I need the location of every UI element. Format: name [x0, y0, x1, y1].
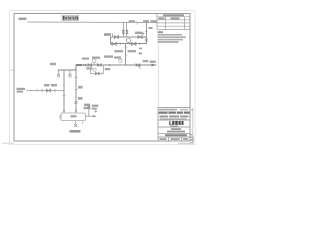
valve top of vent pipe: [87, 105, 90, 107]
vertical fold line right: [157, 44, 159, 108]
label right of vent valve row2: [92, 108, 97, 110]
valve on main line right (bowtie) V3: [136, 64, 140, 67]
flange tick upper manifold right: [143, 36, 145, 38]
label above main line big right: [104, 55, 113, 57]
instrument circle on bypass: [93, 68, 96, 71]
pipe: left feed line: [27, 90, 65, 92]
stamp logo: [62, 15, 79, 20]
sheet number marks in right column: [191, 134, 193, 141]
title row centered wide: [167, 131, 185, 133]
control valve actuator circle: [126, 38, 130, 42]
drain stub below vessel: [75, 121, 77, 124]
right edge tab: [192, 137, 194, 143]
label right of vent valve: [92, 105, 99, 107]
tie-in label row2: [17, 91, 24, 93]
pipe: upper manifold header: [110, 36, 147, 38]
valve on upper manifold left (bowtie): [115, 36, 119, 39]
company logo text LAMAR: [169, 121, 183, 125]
flange tick right downcomer upper: [75, 77, 78, 79]
bottom cells text 3: [183, 138, 188, 140]
revision table title text: [163, 14, 184, 16]
inner drawing border: [14, 14, 190, 142]
flange tick on right connector: [145, 30, 148, 32]
pipe: vent header: [28, 21, 158, 24]
vent valve A (bowtie down): [57, 74, 60, 77]
sheet text outside frame right: [191, 109, 194, 111]
right column bottom tick: [190, 141, 193, 143]
plus mark symbol: [94, 110, 97, 113]
vent valve B (bowtie down): [69, 74, 72, 77]
pipe: bypass line below main: [91, 73, 104, 75]
flange tick lower manifold d: [139, 43, 141, 45]
notes line 4: [158, 41, 179, 43]
arrow into vessel left downcomer: [63, 111, 65, 114]
label right of right connector top: [149, 27, 153, 29]
vessel T-1: [61, 113, 86, 121]
notes line 1: [158, 34, 183, 36]
flange tick lower manifold b: [120, 43, 122, 45]
instrument bubble on main line: [92, 59, 96, 63]
label below manifold left: [115, 50, 124, 52]
tick on vent header: [136, 21, 138, 25]
manifold right end connector pipe: [146, 23, 148, 44]
pipe: right downcomer: [75, 65, 77, 113]
label above manifold left: [104, 33, 111, 36]
flange tick left downcomer: [63, 95, 66, 97]
bypass drop right: [103, 65, 105, 74]
revision header cell text 1: [159, 18, 165, 20]
tick on center drop: [125, 46, 128, 48]
label right of bypass: [105, 68, 111, 70]
bottom cells text 1: [160, 138, 167, 140]
feed line flange tick 2: [36, 89, 38, 92]
valve on lower manifold right (bowtie): [132, 42, 137, 45]
pipe: manifold center drop to main line: [125, 44, 127, 65]
feed line label left: [44, 84, 50, 86]
outer sheet border: [10, 11, 196, 145]
vessel left nozzle tick: [59, 115, 61, 119]
heavy pipe segment after corner: [76, 64, 82, 66]
vent stub A below jog: [58, 70, 60, 74]
valve on main line (bowtie) V1: [88, 64, 92, 67]
slope flag from valve: [138, 66, 141, 69]
arrow at drain right: [93, 115, 97, 117]
label near right end of vent header: [143, 20, 149, 22]
title block band 2 text: [160, 115, 189, 117]
cap under vent valve A: [57, 76, 60, 78]
header label right b: [151, 20, 157, 22]
valve on right downcomer: [75, 101, 78, 104]
riser pipe PSV-B to vent header: [126, 22, 128, 37]
bottom cells text 2: [171, 138, 180, 140]
logo sub caption: [170, 126, 178, 127]
control valve stem: [128, 42, 130, 45]
check valve on main line: [109, 64, 112, 66]
notes line 2: [158, 36, 187, 38]
pipe: lower manifold header: [110, 43, 147, 45]
pipe: left downcomer: [63, 70, 65, 113]
title row small centered: [171, 128, 181, 130]
title block stamp text row 1b: [180, 109, 188, 111]
valve on bypass (bowtie): [96, 72, 100, 75]
label right of vessel top 2: [84, 107, 91, 109]
notes title: [158, 31, 164, 33]
vent stub B below jog: [69, 70, 71, 74]
plot stamp text bottom-left: [2, 143, 14, 145]
valve on feed line (bowtie): [47, 89, 51, 92]
drain valve below vessel: [74, 124, 77, 127]
left fold mark: [10, 69, 15, 71]
title block stamp text row 1: [159, 109, 177, 111]
tick below main line: [86, 66, 88, 68]
valve on lower manifold left (bowtie): [112, 42, 117, 45]
notes line 3: [158, 39, 184, 41]
tiny mark near frame left: [17, 88, 26, 90]
label above main line far right: [143, 60, 149, 62]
bypass drop left: [90, 65, 92, 74]
label above main line mid: [114, 56, 121, 58]
revision table: [157, 14, 190, 30]
pipe: corner jog at main line left end: [58, 65, 77, 70]
node label top-left of vent header: [19, 18, 27, 20]
label below manifold right: [128, 50, 137, 52]
vessel tag text: [71, 115, 77, 117]
tick on main line at x140: [139, 64, 141, 66]
label below drain valve: [70, 130, 81, 133]
label on vent header: [129, 20, 136, 22]
riser pipe PSV-A to vent header: [123, 22, 125, 37]
title block dark band text: [159, 112, 190, 114]
relief valve PSV-A body: [122, 30, 124, 32]
instrument stem: [93, 63, 95, 65]
label right of downcomer lower: [78, 97, 83, 100]
label above manifold right: [135, 32, 143, 34]
small instrument circle above main line: [119, 59, 122, 62]
flange tick lower manifold a: [110, 43, 112, 45]
pipe: main process line: [76, 64, 157, 66]
tick on bypass: [101, 72, 103, 74]
valve on upper manifold right (bowtie): [138, 36, 142, 39]
tick below vessel right: [82, 121, 84, 123]
label below main line left: [87, 67, 93, 69]
label left of jog: [50, 63, 56, 65]
label right of vessel top: [84, 104, 90, 106]
feed line end tick: [41, 89, 43, 93]
label above main line big left: [92, 57, 100, 59]
label above arrow: [150, 61, 156, 63]
relief valve PSV-B body: [126, 30, 128, 32]
title block small row text: [160, 118, 187, 119]
valve on main line (bowtie) V2: [98, 64, 102, 67]
right edge column line: [192, 108, 194, 143]
cap under vent valve B: [68, 76, 71, 78]
label above main line near corner: [82, 58, 89, 60]
arrow into vessel right downcomer: [75, 111, 77, 114]
flange tick on manifold left label: [112, 34, 114, 38]
revision header cell text 2: [171, 18, 180, 20]
label right of downcomer upper: [78, 86, 83, 89]
manifold left end connector pipe: [110, 37, 112, 44]
spec break mark 2 below manifold right: [139, 52, 142, 54]
small valve after heavy segment: [84, 64, 87, 66]
arrow head at main line right end: [152, 64, 157, 67]
valve on right connector: [145, 39, 148, 41]
spec break mark below manifold right: [139, 48, 142, 50]
junction mark on center drop: [125, 54, 128, 56]
flange tick right downcomer mid: [75, 89, 78, 91]
arrow mark left of right connector: [142, 32, 145, 35]
plot stamp text bottom-right: [178, 143, 194, 145]
pipe from vessel right end: [86, 115, 94, 117]
flange tick feed line: [54, 89, 56, 92]
flange tick lower manifold c: [129, 43, 131, 45]
drawing title text: [165, 134, 187, 136]
title block frame: [158, 108, 190, 142]
feed line label left b: [51, 84, 57, 86]
vent pipe right of vessel: [88, 107, 90, 116]
